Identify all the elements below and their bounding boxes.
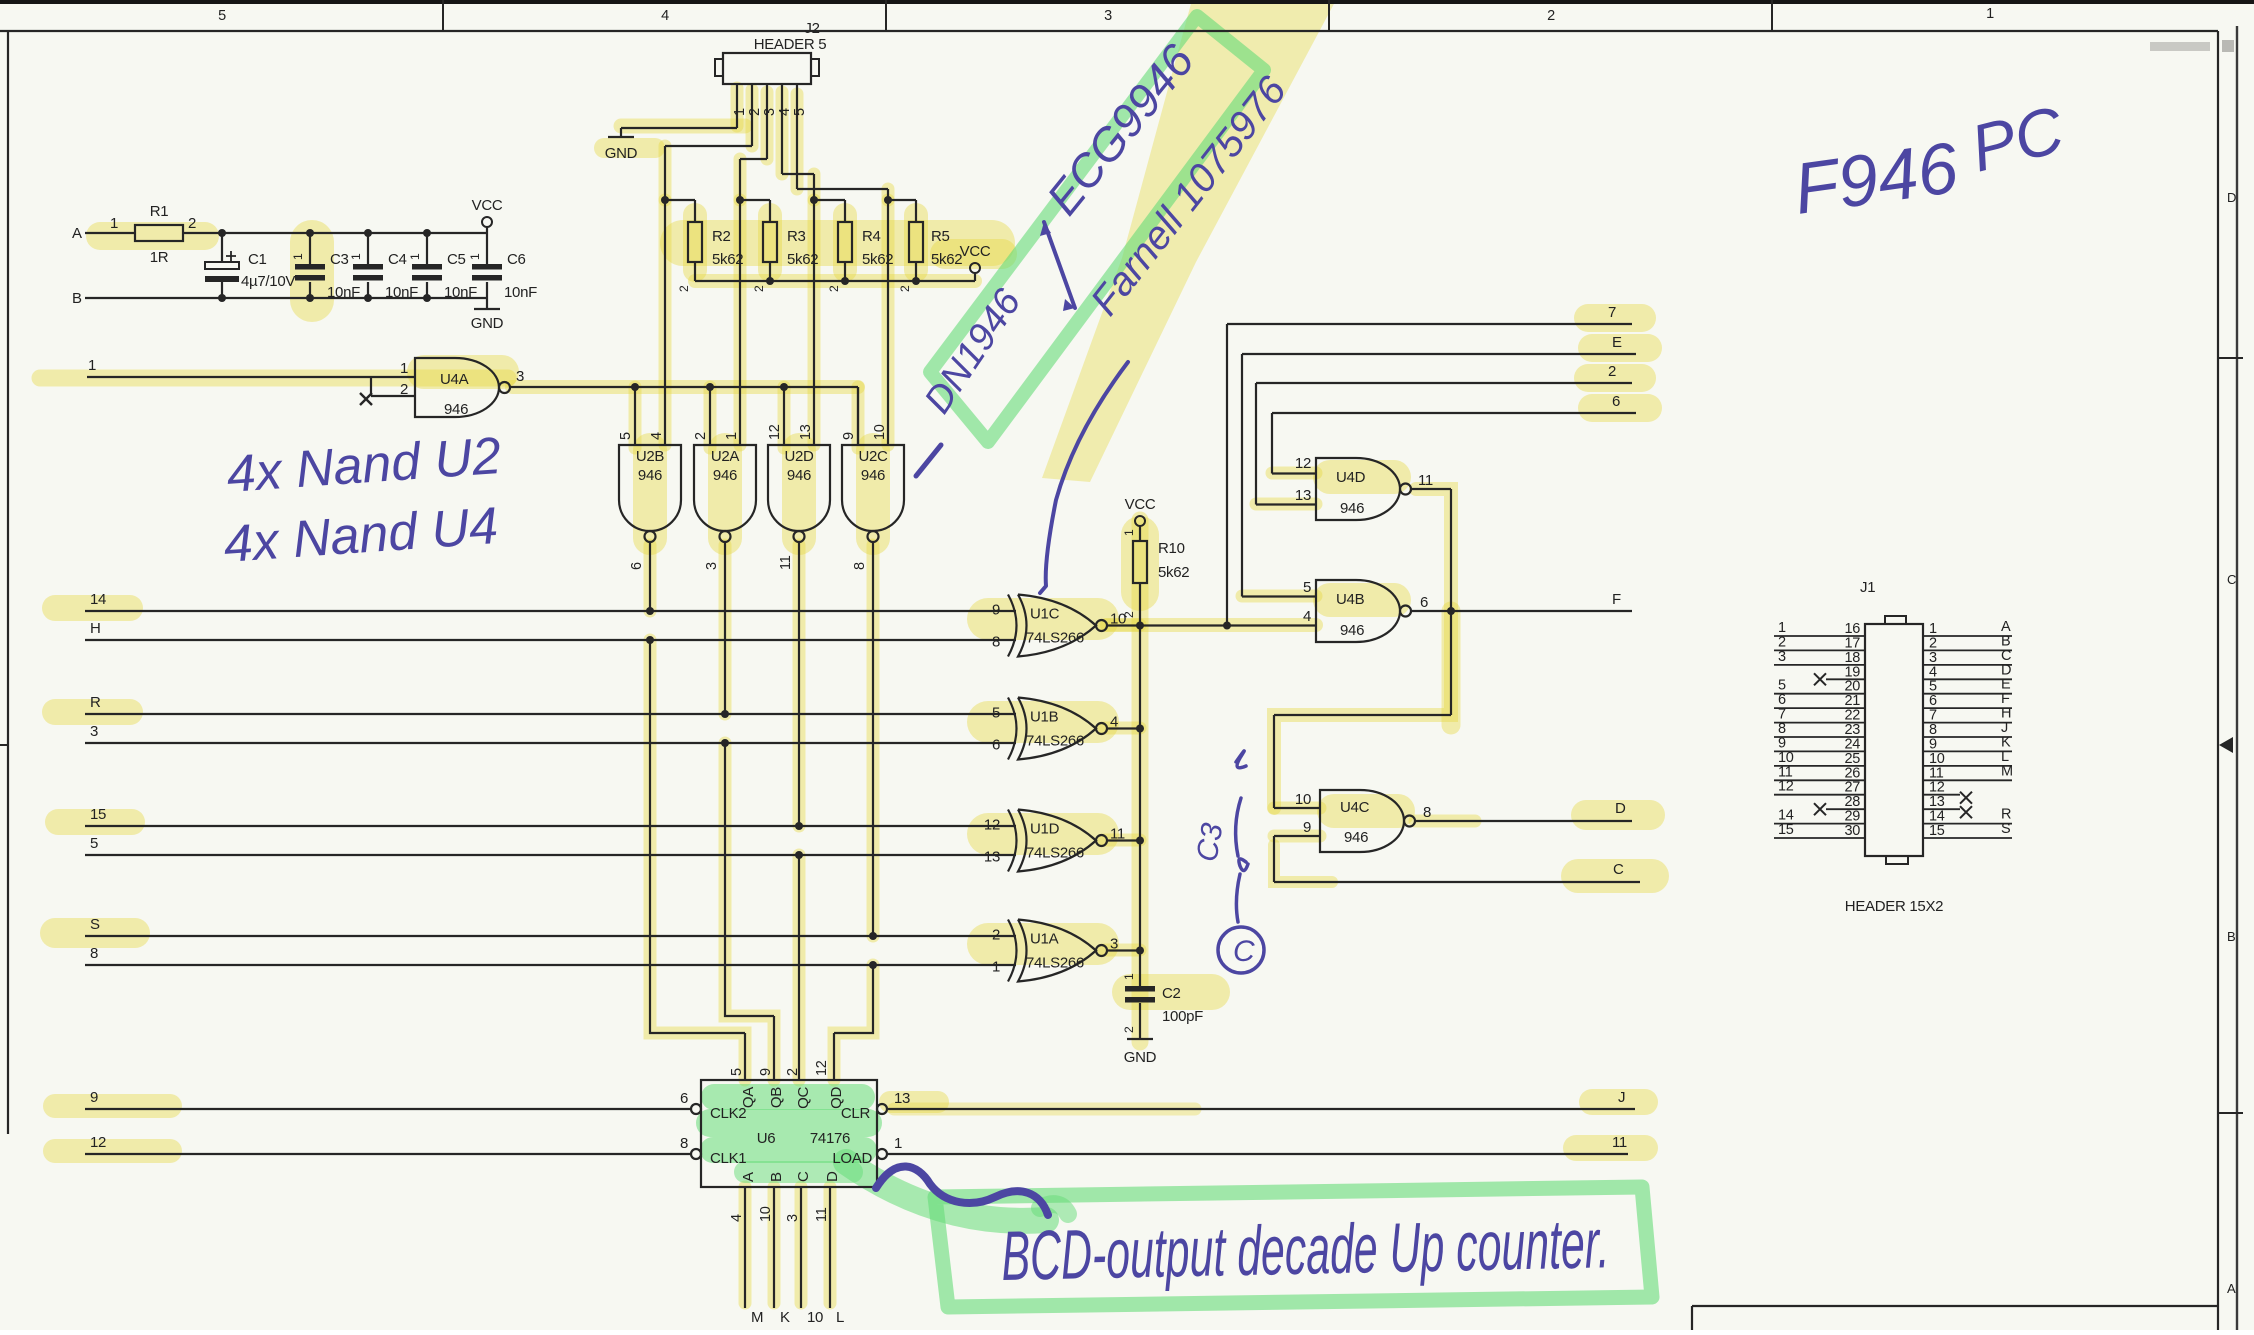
svg-text:M: M — [2001, 763, 2013, 779]
svg-text:J: J — [1618, 1089, 1625, 1106]
svg-text:2: 2 — [752, 285, 766, 292]
svg-text:U1C: U1C — [1030, 606, 1060, 623]
svg-text:1: 1 — [894, 1135, 902, 1152]
svg-text:10nF: 10nF — [444, 284, 477, 301]
svg-text:U1B: U1B — [1030, 709, 1059, 726]
svg-text:C4: C4 — [388, 251, 407, 268]
svg-text:U1D: U1D — [1030, 821, 1060, 838]
svg-text:2: 2 — [677, 285, 691, 292]
svg-text:VCC: VCC — [472, 197, 503, 214]
svg-text:1: 1 — [724, 432, 740, 440]
svg-text:VCC: VCC — [960, 243, 991, 260]
svg-text:E: E — [1612, 334, 1622, 351]
svg-text:1: 1 — [732, 108, 748, 116]
svg-text:U4B: U4B — [1336, 591, 1365, 608]
svg-text:R10: R10 — [1158, 540, 1185, 557]
svg-text:946: 946 — [638, 467, 662, 484]
svg-text:100pF: 100pF — [1162, 1008, 1203, 1025]
svg-text:1: 1 — [408, 253, 422, 260]
svg-text:4: 4 — [1303, 608, 1311, 625]
svg-text:5: 5 — [729, 1068, 745, 1076]
svg-text:946: 946 — [861, 467, 885, 484]
svg-text:2: 2 — [693, 432, 709, 440]
svg-text:13: 13 — [1295, 487, 1311, 504]
svg-text:13: 13 — [984, 849, 1000, 866]
svg-text:F: F — [1612, 591, 1621, 608]
svg-text:K: K — [780, 1309, 790, 1326]
svg-text:C6: C6 — [507, 251, 526, 268]
svg-text:C5: C5 — [447, 251, 466, 268]
svg-text:6: 6 — [629, 562, 645, 570]
svg-text:5k62: 5k62 — [862, 251, 893, 268]
svg-text:HEADER 15X2: HEADER 15X2 — [1845, 898, 1943, 915]
svg-text:B: B — [72, 290, 82, 307]
svg-text:M: M — [751, 1309, 763, 1326]
svg-text:5: 5 — [992, 705, 1000, 722]
svg-text:5k62: 5k62 — [787, 251, 818, 268]
svg-text:GND: GND — [471, 315, 504, 332]
svg-text:2: 2 — [188, 215, 196, 232]
svg-text:2: 2 — [1547, 8, 1555, 24]
svg-text:R: R — [90, 694, 101, 711]
svg-text:L: L — [836, 1309, 844, 1326]
svg-text:5: 5 — [90, 835, 98, 852]
svg-text:LOAD: LOAD — [832, 1150, 872, 1167]
svg-text:2: 2 — [1122, 1026, 1136, 1033]
svg-text:5k62: 5k62 — [712, 251, 743, 268]
svg-text:1: 1 — [110, 215, 118, 232]
svg-text:C: C — [795, 1171, 812, 1182]
svg-text:12: 12 — [1778, 779, 1794, 795]
svg-text:C: C — [1613, 861, 1624, 878]
svg-text:A: A — [2227, 1281, 2236, 1296]
svg-text:5: 5 — [792, 108, 808, 116]
svg-text:U2B: U2B — [636, 448, 665, 465]
svg-text:10: 10 — [1295, 791, 1311, 808]
svg-text:9: 9 — [1303, 819, 1311, 836]
svg-text:74LS266: 74LS266 — [1026, 733, 1084, 750]
svg-text:1: 1 — [1122, 973, 1136, 980]
svg-text:946: 946 — [1340, 500, 1364, 517]
svg-text:1: 1 — [349, 253, 363, 260]
svg-text:13: 13 — [894, 1090, 910, 1107]
svg-text:5k62: 5k62 — [931, 251, 962, 268]
svg-text:7: 7 — [1608, 304, 1616, 321]
svg-text:QB: QB — [768, 1087, 785, 1108]
svg-text:2: 2 — [1608, 363, 1616, 380]
svg-text:R4: R4 — [862, 228, 881, 245]
svg-text:6: 6 — [992, 737, 1000, 754]
svg-text:C: C — [1233, 935, 1255, 968]
svg-text:1: 1 — [400, 360, 408, 377]
svg-text:15: 15 — [1929, 823, 1945, 839]
svg-text:C: C — [2227, 572, 2236, 587]
svg-text:1: 1 — [468, 253, 482, 260]
svg-text:11: 11 — [778, 555, 794, 570]
svg-text:R3: R3 — [787, 228, 806, 245]
svg-text:12: 12 — [1295, 455, 1311, 472]
svg-text:R2: R2 — [712, 228, 731, 245]
svg-text:3: 3 — [785, 1214, 801, 1222]
svg-text:B: B — [768, 1172, 785, 1182]
svg-text:11: 11 — [814, 1207, 830, 1222]
svg-text:5: 5 — [1303, 579, 1311, 596]
svg-text:12: 12 — [90, 1134, 106, 1151]
svg-text:4: 4 — [777, 108, 793, 116]
svg-text:2: 2 — [400, 381, 408, 398]
svg-text:J2: J2 — [804, 20, 819, 37]
svg-text:74LS266: 74LS266 — [1026, 845, 1084, 862]
svg-text:3: 3 — [1104, 8, 1112, 24]
svg-text:R5: R5 — [931, 228, 950, 245]
svg-text:QD: QD — [828, 1087, 845, 1109]
svg-text:74LS266: 74LS266 — [1026, 630, 1084, 647]
svg-text:3: 3 — [1778, 649, 1786, 665]
svg-text:1: 1 — [88, 357, 96, 374]
svg-text:9: 9 — [992, 602, 1000, 619]
svg-text:4µ7/10V: 4µ7/10V — [241, 273, 295, 290]
svg-text:U1A: U1A — [1030, 931, 1059, 948]
svg-text:A: A — [740, 1172, 757, 1182]
svg-text:4: 4 — [729, 1214, 745, 1222]
svg-text:9: 9 — [90, 1089, 98, 1106]
svg-text:10nF: 10nF — [504, 284, 537, 301]
svg-text:C3: C3 — [1190, 820, 1229, 864]
svg-text:946: 946 — [444, 401, 468, 418]
svg-text:U4D: U4D — [1336, 469, 1366, 486]
svg-text:14: 14 — [90, 591, 106, 608]
svg-text:10nF: 10nF — [327, 284, 360, 301]
svg-text:HEADER 5: HEADER 5 — [754, 36, 827, 53]
svg-text:3: 3 — [704, 562, 720, 570]
svg-text:1: 1 — [291, 253, 305, 260]
svg-text:15: 15 — [90, 806, 106, 823]
svg-text:10: 10 — [872, 424, 888, 440]
svg-text:U2D: U2D — [784, 448, 814, 465]
svg-text:11: 11 — [1418, 472, 1433, 489]
svg-text:1: 1 — [992, 959, 1000, 976]
svg-text:8: 8 — [90, 945, 98, 962]
svg-text:H: H — [90, 620, 101, 637]
svg-text:946: 946 — [787, 467, 811, 484]
svg-text:74176: 74176 — [810, 1130, 850, 1147]
svg-text:6: 6 — [1612, 393, 1620, 410]
svg-text:C1: C1 — [248, 251, 267, 268]
svg-text:3: 3 — [516, 368, 524, 385]
svg-text:C3: C3 — [330, 251, 349, 268]
svg-text:15: 15 — [1778, 822, 1794, 838]
svg-text:5: 5 — [218, 8, 226, 24]
svg-text:12: 12 — [767, 424, 783, 440]
svg-text:8: 8 — [1423, 804, 1431, 821]
svg-text:U6: U6 — [757, 1130, 776, 1147]
svg-text:CLR: CLR — [841, 1105, 871, 1122]
svg-text:C2: C2 — [1162, 985, 1181, 1002]
svg-text:GND: GND — [605, 145, 638, 162]
svg-text:10: 10 — [807, 1309, 823, 1326]
svg-text:13: 13 — [798, 424, 814, 440]
svg-text:BCD-output decade Up counter.: BCD-output decade Up counter. — [1001, 1204, 1611, 1295]
svg-text:2: 2 — [785, 1068, 801, 1076]
svg-text:QA: QA — [740, 1087, 757, 1108]
svg-text:74LS266: 74LS266 — [1026, 955, 1084, 972]
svg-text:2: 2 — [747, 108, 763, 116]
svg-text:3: 3 — [762, 108, 778, 116]
svg-text:4: 4 — [649, 432, 665, 440]
svg-text:U2C: U2C — [858, 448, 888, 465]
svg-text:5: 5 — [618, 432, 634, 440]
svg-text:CLK1: CLK1 — [710, 1150, 746, 1167]
svg-text:2: 2 — [1122, 611, 1136, 618]
svg-text:D: D — [824, 1171, 841, 1182]
svg-text:VCC: VCC — [1125, 496, 1156, 513]
svg-text:4: 4 — [661, 8, 669, 24]
svg-text:6: 6 — [680, 1090, 688, 1107]
svg-text:R1: R1 — [150, 203, 169, 220]
svg-text:6: 6 — [1420, 594, 1428, 611]
svg-text:U4C: U4C — [1340, 799, 1370, 816]
svg-text:A: A — [72, 225, 82, 242]
svg-text:GND: GND — [1124, 1049, 1157, 1066]
svg-text:30: 30 — [1844, 823, 1860, 839]
svg-text:8: 8 — [992, 634, 1000, 651]
svg-text:D: D — [2227, 190, 2236, 205]
svg-text:946: 946 — [713, 467, 737, 484]
svg-text:1: 1 — [1986, 6, 1994, 22]
svg-text:1R: 1R — [150, 249, 169, 266]
svg-text:5k62: 5k62 — [1158, 564, 1189, 581]
svg-text:946: 946 — [1344, 829, 1368, 846]
svg-text:2: 2 — [898, 285, 912, 292]
svg-text:B: B — [2227, 929, 2235, 944]
svg-text:9: 9 — [841, 432, 857, 440]
svg-text:D: D — [1615, 800, 1626, 817]
svg-text:12: 12 — [984, 817, 1000, 834]
svg-text:946: 946 — [1340, 622, 1364, 639]
svg-text:U4A: U4A — [440, 371, 469, 388]
svg-text:10nF: 10nF — [385, 284, 418, 301]
svg-text:10: 10 — [758, 1206, 774, 1222]
svg-text:3: 3 — [90, 723, 98, 740]
svg-text:2: 2 — [827, 285, 841, 292]
svg-text:S: S — [90, 916, 100, 933]
svg-text:9: 9 — [758, 1068, 774, 1076]
svg-text:2: 2 — [992, 927, 1000, 944]
svg-text:U2A: U2A — [711, 448, 740, 465]
svg-text:1: 1 — [1122, 529, 1136, 536]
svg-text:11: 11 — [1612, 1134, 1627, 1151]
svg-text:S: S — [2001, 821, 2010, 837]
svg-text:8: 8 — [680, 1135, 688, 1152]
svg-text:QC: QC — [795, 1087, 812, 1109]
svg-text:J1: J1 — [1860, 579, 1875, 596]
svg-text:8: 8 — [852, 562, 868, 570]
svg-text:12: 12 — [814, 1060, 830, 1076]
